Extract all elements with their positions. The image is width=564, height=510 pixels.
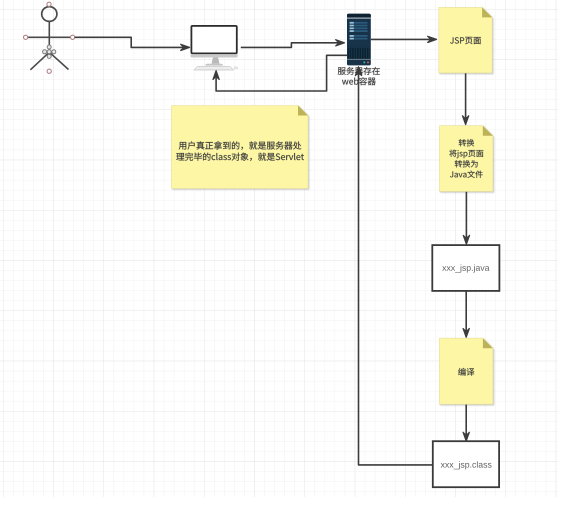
label: xxx_jsp.java (442, 264, 489, 272)
wire W8: class box -> server (359, 70, 433, 465)
note N1: JSP页面 (439, 7, 492, 73)
server label: 服务器存在 web容器 (338, 67, 380, 75)
wire W5: N2 -> java box (465, 192, 467, 241)
label: xxx_jsp.class (441, 461, 492, 469)
note N4: explanation 用户真正拿到的... (172, 106, 309, 189)
label: 编译 (458, 368, 474, 376)
monitor (computer) (190, 25, 237, 70)
wire W7: N3 -> class box (465, 405, 467, 438)
note N3: 编译 (439, 338, 493, 404)
wire W4: N1 -> N2 (465, 73, 467, 121)
label: note N4 text (179, 141, 302, 150)
actor connection endpoint markers (24, 2, 75, 73)
box B2: xxx_jsp.class (433, 441, 499, 487)
actor (user) (26, 7, 74, 70)
wire W2: monitor -> server (241, 43, 342, 48)
wire W9: server -> monitor (216, 55, 347, 91)
box B1: xxx_jsp.java (432, 245, 499, 291)
server (web container) (347, 14, 371, 66)
wire W6: java box -> N3 (465, 291, 467, 334)
label: 转换/将jsp页面/转换为/Java文件 (459, 139, 474, 146)
wire W3: server -> JSP note (371, 38, 433, 40)
actor hip waypoint cluster (43, 45, 56, 58)
label: JSP页面 (450, 37, 481, 44)
wire W1: user -> monitor (75, 37, 186, 47)
note N2: 转换 (440, 126, 493, 192)
